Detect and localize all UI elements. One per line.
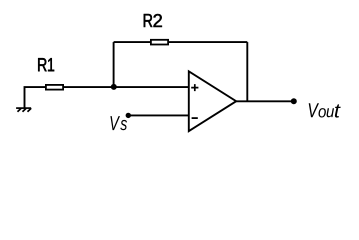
resistor R1 — [46, 85, 63, 90]
op-amp + input marker — [191, 84, 198, 91]
wire: feedback top right segment — [168, 41, 247, 43]
label R2 — [144, 14, 162, 27]
label Vout — [309, 103, 341, 117]
ground — [16, 108, 31, 112]
Vout terminal dot — [291, 98, 297, 104]
wire: op-amp output — [236, 100, 294, 102]
wire: R1 to op-amp + input — [64, 86, 189, 88]
node A junction dot — [111, 84, 117, 90]
Vs terminal dot — [126, 113, 131, 118]
wire: Vs to op-amp - input — [128, 114, 189, 116]
resistor R2 — [151, 40, 168, 45]
wire: feedback vertical right down to output — [246, 42, 248, 101]
wire: feedback top left segment — [114, 41, 151, 43]
wire: feedback vertical left — [113, 42, 115, 87]
op-amp - input marker — [192, 117, 198, 119]
op-amp U1 — [189, 71, 236, 131]
label Vs — [110, 116, 127, 130]
wire: ground stem up to R1 input — [25, 87, 47, 108]
label R1 — [38, 58, 54, 71]
